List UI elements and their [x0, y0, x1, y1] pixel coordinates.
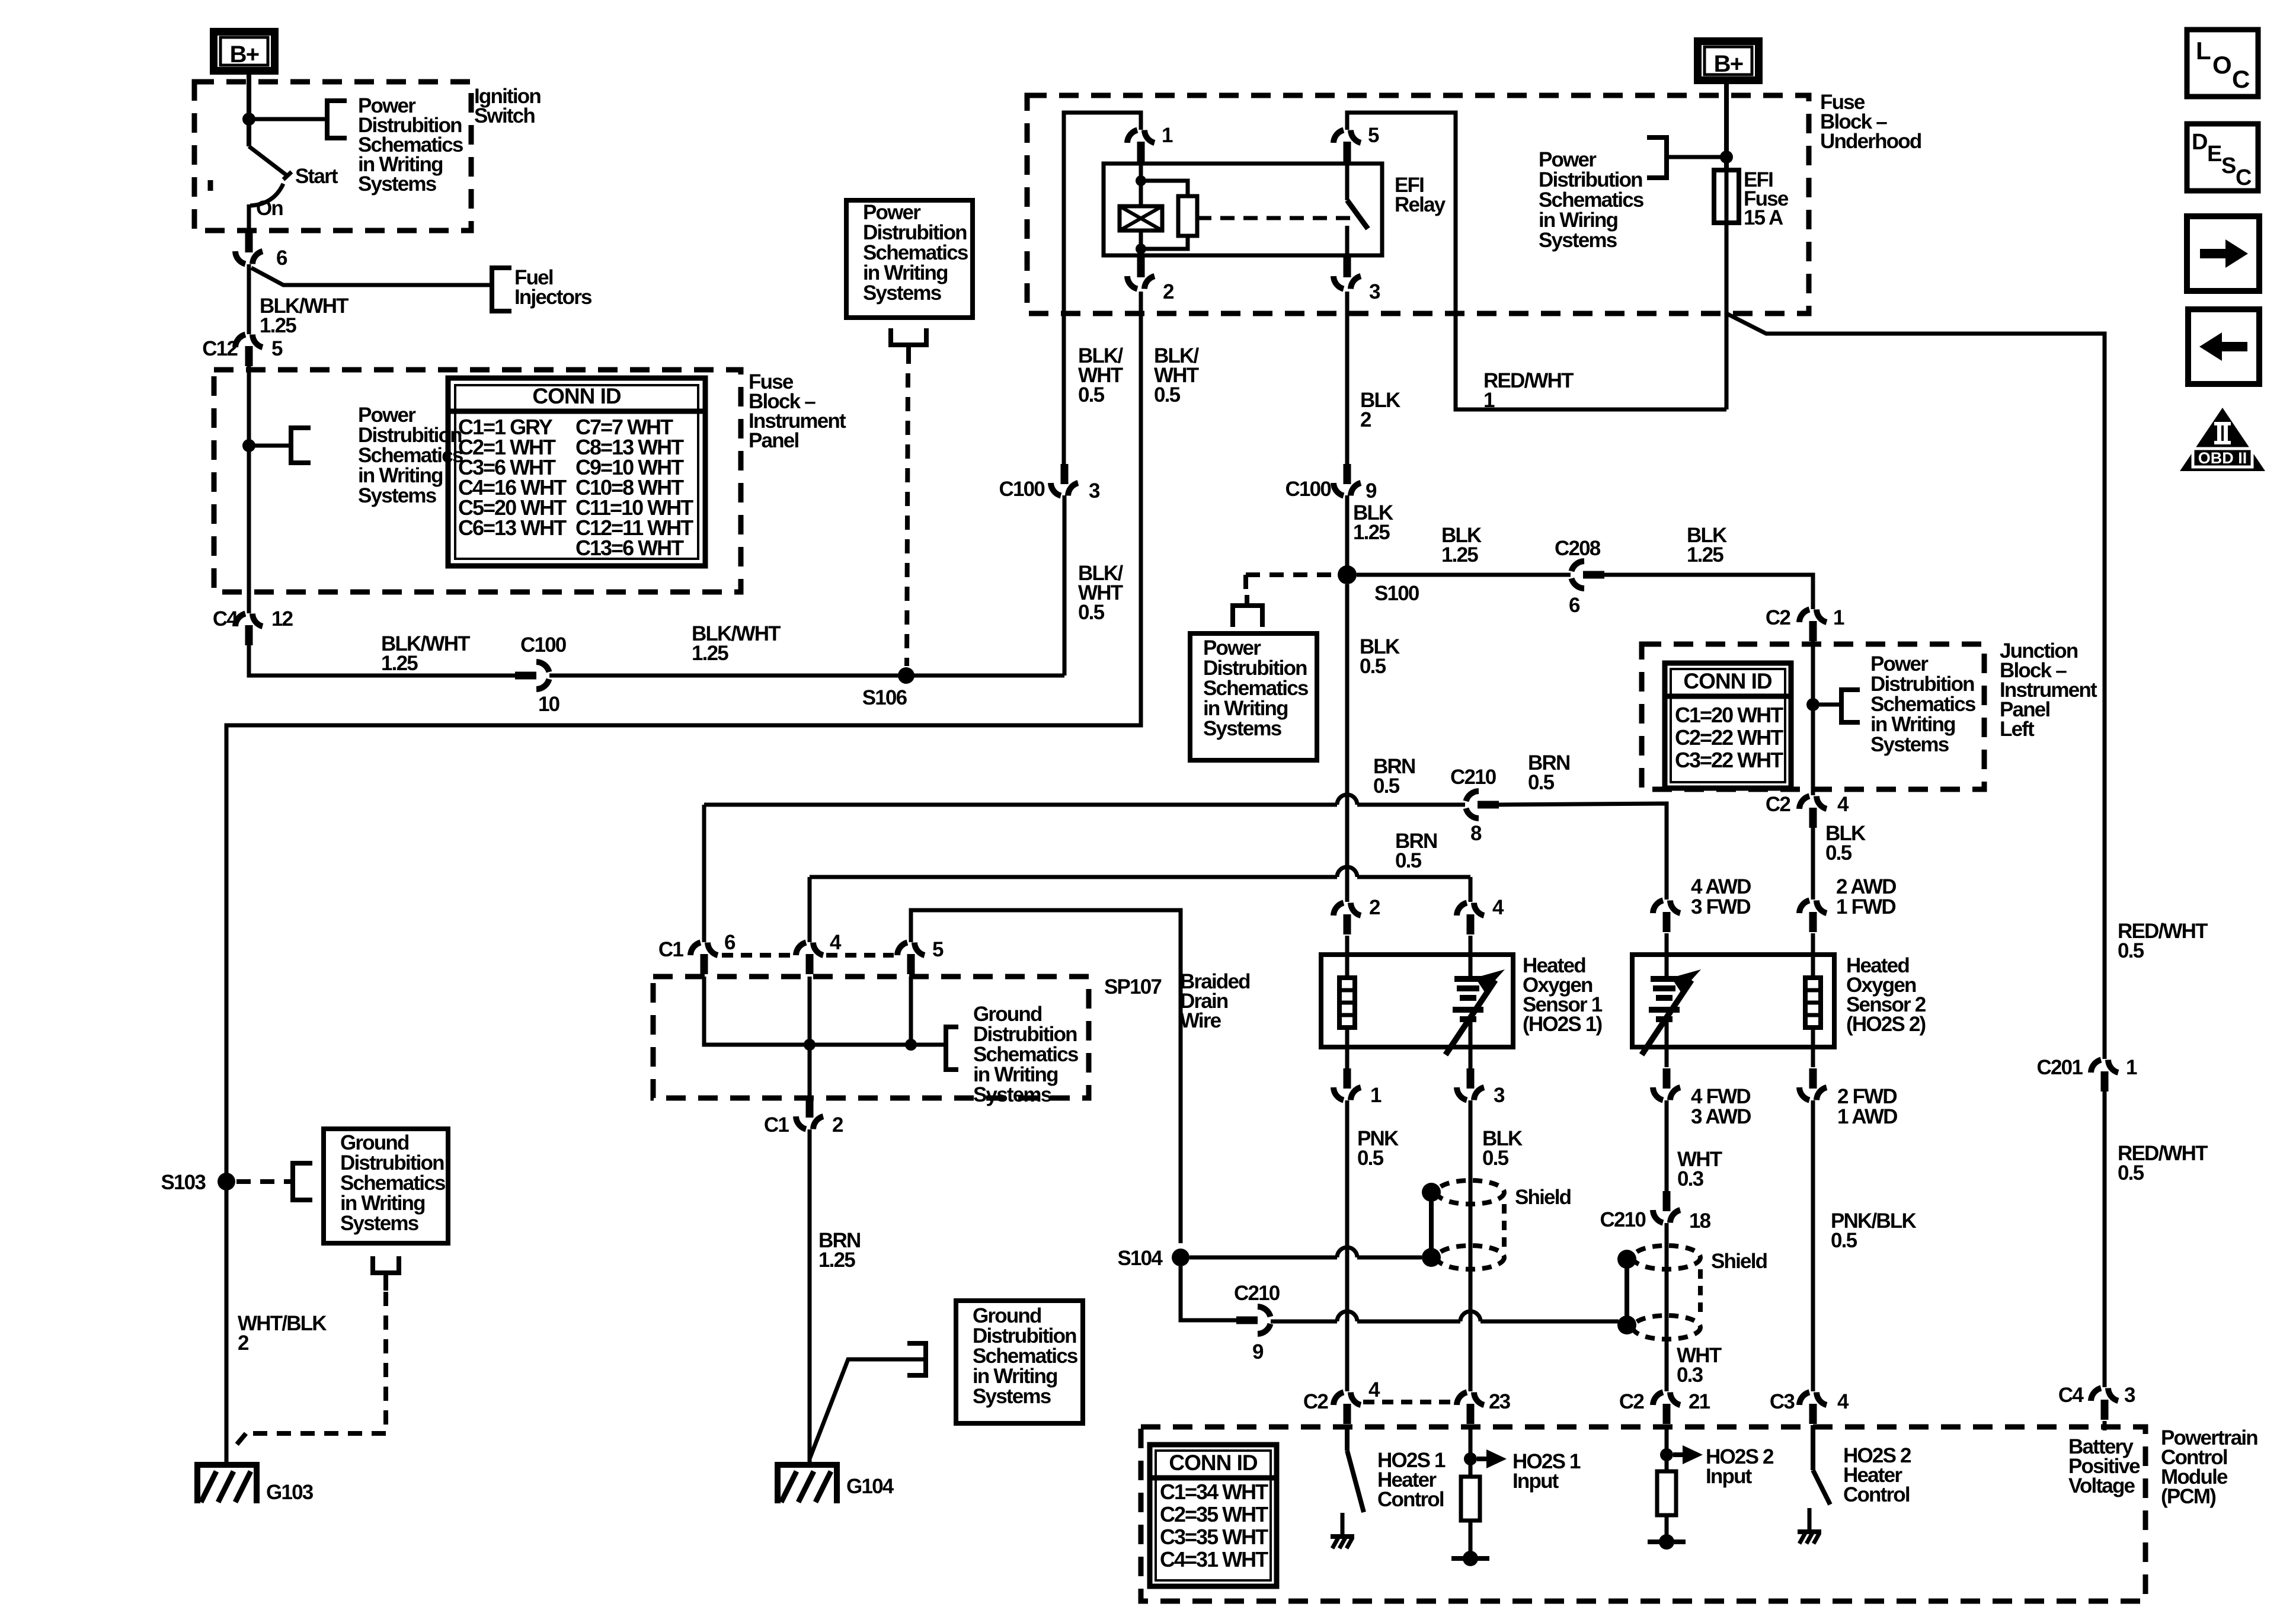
svg-text:(HO2S 1): (HO2S 1): [1523, 1013, 1602, 1036]
svg-text:1.25: 1.25: [260, 314, 296, 337]
svg-text:G103: G103: [266, 1481, 314, 1504]
svg-text:Wire: Wire: [1180, 1009, 1221, 1032]
connector HO2S1 pin 1: [1334, 1087, 1344, 1100]
svg-text:(HO2S 2): (HO2S 2): [1846, 1013, 1926, 1036]
svg-text:5: 5: [1368, 124, 1379, 147]
svg-text:18: 18: [1689, 1209, 1711, 1233]
node S100: [1338, 565, 1357, 584]
wire S104 to shield1: [1189, 1256, 1337, 1260]
svg-text:3: 3: [1494, 1084, 1505, 1107]
EFI fuse symbol: [1714, 170, 1739, 223]
connector C100 pin 3: [1051, 483, 1061, 496]
connector C2 pin 4 (PCM): [1334, 1393, 1344, 1406]
svg-text:21: 21: [1689, 1390, 1710, 1413]
wire BRN C210-8 line: [704, 803, 1337, 807]
HO2S2 heater element: [1805, 978, 1821, 1028]
relay switch: [1345, 164, 1350, 200]
svg-text:0.5: 0.5: [1078, 601, 1105, 624]
svg-text:S100: S100: [1374, 582, 1419, 605]
svg-text:Systems: Systems: [358, 484, 437, 507]
svg-text:C1: C1: [658, 938, 683, 961]
wire C1-5 to bus: [909, 977, 913, 1045]
relay coil bottom join: [1141, 236, 1188, 249]
svg-text:C208: C208: [1555, 537, 1601, 560]
svg-text:0.5: 0.5: [1528, 771, 1555, 794]
shield 1 dashed ellipses: [1437, 1180, 1504, 1204]
wire C100-10 to S106 to corner: [549, 674, 1064, 678]
resistor HO2S2 input: [1657, 1471, 1676, 1515]
ignition switch left tick: [208, 180, 213, 191]
wire C4-3 stub into PCM: [2103, 1421, 2107, 1430]
connector HO2S2 right bottom pin (2FWD/1AWD): [1799, 1087, 1809, 1100]
svg-text:2: 2: [1163, 280, 1174, 303]
svg-text:Left: Left: [2000, 718, 2035, 741]
resistor HO2S1 input: [1461, 1477, 1480, 1521]
svg-text:S106: S106: [862, 686, 907, 709]
relay coil X-box: [1120, 206, 1162, 231]
connector C100 pin 10: [515, 672, 536, 680]
HO2S2 heater control ground: [1808, 1508, 1812, 1532]
node HO2S2 input: [1660, 1448, 1673, 1461]
wire C100-9 to S100: [1345, 495, 1350, 566]
svg-text:1: 1: [1483, 389, 1495, 412]
node S106: [898, 667, 914, 684]
svg-text:3: 3: [2124, 1384, 2135, 1407]
annotation box relay-left PDS: [846, 200, 973, 318]
ground G103: [194, 1462, 260, 1468]
svg-text:1: 1: [1370, 1084, 1382, 1107]
svg-text:Systems: Systems: [973, 1083, 1052, 1106]
svg-text:3: 3: [1089, 479, 1100, 502]
wire junction to bracket (fbu): [1667, 155, 1726, 159]
SP107 dashed box: [653, 977, 1089, 1098]
svg-text:C3=35 WHT: C3=35 WHT: [1160, 1525, 1268, 1549]
wire C210-9 to shield2: [1271, 1320, 1337, 1324]
wire C4-12 corner: [249, 645, 515, 676]
connector C2 pin 4 (JB): [1799, 796, 1809, 809]
svg-text:3: 3: [1369, 280, 1380, 303]
svg-text:S104: S104: [1117, 1247, 1163, 1270]
dashed link to S106: [907, 373, 908, 666]
svg-text:2: 2: [238, 1331, 249, 1355]
wire C1-2 to G104: [808, 1129, 812, 1464]
svg-text:1: 1: [1162, 124, 1173, 147]
svg-text:4: 4: [830, 931, 842, 954]
svg-text:S103: S103: [161, 1171, 206, 1194]
svg-text:0.3: 0.3: [1677, 1363, 1703, 1387]
svg-text:2: 2: [832, 1113, 843, 1137]
svg-text:Control: Control: [1843, 1483, 1910, 1506]
svg-text:SP107: SP107: [1104, 975, 1161, 998]
svg-text:C210: C210: [1234, 1282, 1280, 1305]
connector EFI relay pin 2: [1127, 276, 1137, 289]
svg-text:C4: C4: [213, 607, 238, 630]
svg-text:C1: C1: [764, 1113, 789, 1137]
wire relay pin2 long path: [226, 292, 1141, 1173]
svg-text:Control: Control: [1377, 1488, 1444, 1511]
svg-text:C13=6 WHT: C13=6 WHT: [575, 536, 684, 560]
HO2S2 heater control switch: [1811, 1425, 1815, 1470]
svg-text:C1=34 WHT: C1=34 WHT: [1160, 1480, 1268, 1504]
svg-text:15 A: 15 A: [1744, 206, 1783, 229]
wire diag to fuel injectors: [251, 268, 492, 285]
connector C210 pin 18: [1653, 1210, 1663, 1223]
svg-text:Switch: Switch: [474, 104, 535, 127]
wire B+2 down: [1724, 84, 1729, 170]
relay armature dashed link: [1197, 216, 1352, 220]
svg-text:23: 23: [1489, 1390, 1511, 1413]
connector C210 pin 9: [1236, 1317, 1258, 1324]
svg-text:0.5: 0.5: [1360, 655, 1386, 678]
HO2S2 sensor wire: [1665, 933, 1669, 979]
wire bracket to G104: [810, 1359, 926, 1459]
bracket below S103 box: [373, 1256, 399, 1273]
wire C1-4 down through box: [808, 977, 812, 1098]
relay coil resistor: [1178, 196, 1197, 236]
svg-text:3 AWD: 3 AWD: [1691, 1105, 1751, 1128]
svg-text:9: 9: [1252, 1340, 1264, 1363]
wire C2-4 down: [1811, 828, 1815, 900]
svg-text:1 AWD: 1 AWD: [1837, 1105, 1897, 1128]
svg-text:C2: C2: [1766, 606, 1790, 629]
svg-text:WHT/BLK: WHT/BLK: [238, 1312, 327, 1335]
shield 2 dots and link: [1617, 1250, 1636, 1269]
arrow HO2S2 input: [1673, 1452, 1686, 1457]
svg-text:C1=20 WHT: C1=20 WHT: [1675, 703, 1783, 727]
svg-text:4: 4: [1368, 1378, 1380, 1401]
bracket fuel injectors: [492, 268, 511, 311]
svg-text:12: 12: [271, 607, 293, 630]
svg-text:2: 2: [1369, 896, 1380, 919]
connector HO2S1 pin 3: [1457, 1087, 1467, 1100]
connector C1 pin 2: [796, 1116, 806, 1129]
connector EFI relay pin 5: [1334, 130, 1344, 143]
wire junction to bracket: [249, 117, 327, 121]
svg-text:Systems: Systems: [358, 172, 437, 196]
bracket below S100 annotation: [1245, 595, 1249, 606]
svg-text:6: 6: [724, 931, 736, 954]
svg-text:C201: C201: [2037, 1056, 2083, 1079]
svg-text:G104: G104: [846, 1475, 894, 1498]
ignition switch Start arm: [249, 146, 287, 175]
svg-text:Voltage: Voltage: [2068, 1474, 2135, 1497]
PCM dashed box: [1141, 1427, 2145, 1601]
svg-text:(PCM): (PCM): [2161, 1485, 2215, 1508]
svg-text:CONN ID: CONN ID: [1683, 669, 1772, 693]
node JB junction: [1806, 698, 1819, 711]
svg-text:Systems: Systems: [340, 1212, 419, 1235]
wire On to pin 6: [247, 204, 251, 236]
svg-text:C4: C4: [2058, 1384, 2084, 1407]
connector C208 pin 6: [1572, 561, 1585, 571]
svg-text:Systems: Systems: [863, 281, 942, 305]
bracket annotation S103: [293, 1163, 312, 1200]
wire HO2S2 signal down: [1665, 1100, 1669, 1192]
dashed link S103 to bracket: [236, 1179, 293, 1184]
svg-text:OBD II: OBD II: [2198, 449, 2247, 467]
wire pin5 top corner: [1347, 113, 1726, 409]
connector C1 pin 6: [690, 943, 701, 956]
EFI relay box: [1104, 164, 1382, 255]
svg-text:0.5: 0.5: [1373, 774, 1400, 798]
OBD II triangle: [2180, 408, 2265, 471]
fuse block underhood dashed box: [1027, 95, 1809, 313]
svg-text:9: 9: [1366, 479, 1377, 502]
connector pin 23 (PCM): [1457, 1393, 1467, 1406]
annotation box S100 PDS: [1190, 633, 1317, 760]
svg-text:Start: Start: [295, 165, 338, 188]
svg-text:C4=31 WHT: C4=31 WHT: [1160, 1547, 1268, 1571]
svg-text:CONN ID: CONN ID: [1169, 1451, 1258, 1475]
svg-text:0.5: 0.5: [1825, 841, 1852, 865]
CONN ID table 2 frame: [1665, 663, 1791, 788]
wire C2-21 to resistor: [1665, 1425, 1669, 1471]
svg-text:5: 5: [932, 938, 944, 961]
svg-text:Relay: Relay: [1395, 193, 1446, 216]
connector HO2S1 pin 2: [1334, 903, 1344, 916]
annotation box S103 GDS: [324, 1129, 448, 1243]
CONN ID table 1 frame: [448, 378, 705, 566]
svg-text:L: L: [2196, 37, 2211, 65]
wire corner up to C100-3: [1063, 495, 1067, 676]
svg-text:1.25: 1.25: [1353, 521, 1390, 544]
svg-text:C: C: [2232, 65, 2250, 93]
svg-text:1.25: 1.25: [692, 642, 728, 665]
wire pin6 to C12-5: [247, 264, 251, 334]
arrow HO2S1 input: [1477, 1457, 1490, 1461]
LOC icon box: [2187, 30, 2258, 97]
svg-text:Shield: Shield: [1711, 1250, 1767, 1273]
connector EFI relay pin 3: [1334, 276, 1344, 289]
shield 2 dashed ellipses: [1633, 1246, 1700, 1269]
svg-text:10: 10: [538, 693, 560, 716]
node bus dot 4: [804, 1039, 816, 1051]
svg-text:0.5: 0.5: [1078, 383, 1105, 406]
svg-text:Input: Input: [1512, 1470, 1559, 1493]
junction block dashed box: [1642, 644, 1984, 789]
dashed link C2-4 to 23: [1363, 1400, 1453, 1404]
svg-text:1: 1: [1833, 606, 1844, 629]
bracket annotation G104: [907, 1343, 926, 1375]
svg-text:Systems: Systems: [973, 1385, 1051, 1408]
svg-text:S: S: [2221, 153, 2236, 178]
svg-text:2: 2: [1360, 408, 1371, 431]
connector HO2S2 left bottom pin (4FWD/3AWD): [1653, 1087, 1663, 1100]
svg-text:4: 4: [1492, 896, 1504, 919]
svg-text:C210: C210: [1600, 1208, 1646, 1231]
node fuse top junction: [1720, 151, 1733, 164]
wire S100 right to C208: [1357, 573, 1571, 577]
wire HO2S2 heater down: [1811, 1100, 1815, 1391]
wire B+1 to ignition switch: [247, 75, 251, 146]
svg-text:B+: B+: [1714, 51, 1743, 77]
ground G104: [775, 1462, 840, 1468]
HO2S2 box: [1632, 955, 1834, 1047]
wire C210-8 to HO2S2: [1498, 804, 1667, 900]
svg-text:Injectors: Injectors: [514, 286, 592, 309]
svg-text:1.25: 1.25: [1441, 543, 1478, 566]
wire inside fb-ip down: [247, 446, 251, 613]
connector EFI relay pin 1: [1127, 130, 1137, 143]
bracket annotation fb-ip: [291, 428, 311, 463]
svg-text:0.5: 0.5: [1395, 849, 1422, 872]
node S104: [1172, 1249, 1189, 1266]
svg-text:Panel: Panel: [749, 429, 798, 452]
wire C1-6 to bus: [704, 977, 946, 1045]
right arrow icon box: [2187, 216, 2259, 291]
svg-text:0.5: 0.5: [1482, 1147, 1509, 1170]
svg-text:1.25: 1.25: [381, 652, 418, 675]
HO2S2 input ground: [1665, 1515, 1669, 1542]
svg-text:C12: C12: [202, 337, 238, 360]
dashed annotation to G103: [383, 1292, 388, 1433]
svg-text:C100: C100: [1285, 478, 1332, 501]
svg-text:0.5: 0.5: [2118, 1161, 2144, 1185]
svg-text:C6=13 WHT: C6=13 WHT: [458, 516, 567, 540]
svg-text:C2: C2: [1619, 1390, 1644, 1413]
svg-text:C2=35 WHT: C2=35 WHT: [1160, 1502, 1268, 1526]
bracket annotation ignition: [327, 101, 347, 138]
svg-text:E: E: [2207, 142, 2221, 167]
HO2S1 input ground: [1469, 1521, 1473, 1558]
wire C201 to C4-3: [2103, 1092, 2107, 1387]
wire C208 to C2-1: [1604, 575, 1813, 609]
svg-text:6: 6: [276, 247, 287, 270]
HO2S1 heater wire: [1345, 936, 1350, 978]
relay coil branch: [1139, 162, 1143, 206]
connector HO2S2 left pin (4AWD/3FWD): [1653, 901, 1663, 914]
svg-text:D: D: [2192, 130, 2207, 155]
HO2S1 heater control ground: [1341, 1513, 1345, 1537]
svg-text:0.3: 0.3: [1677, 1167, 1704, 1190]
svg-text:1: 1: [2126, 1056, 2137, 1079]
wire junction to bracket (fb-ip): [249, 444, 291, 448]
svg-text:0.5: 0.5: [1831, 1229, 1857, 1252]
DESC icon box: [2187, 124, 2258, 191]
svg-text:Systems: Systems: [1203, 717, 1282, 740]
svg-text:Systems: Systems: [1870, 733, 1949, 756]
connector HO2S2 right pin (2AWD/1FWD): [1799, 901, 1809, 914]
battery B+ terminal 2 (box): [1698, 41, 1759, 81]
fuse block IP dashed box: [214, 370, 741, 592]
svg-text:4: 4: [1837, 793, 1849, 816]
connector C3 pin 4 (PCM): [1799, 1393, 1809, 1406]
connector C2 pin 21 (PCM): [1653, 1393, 1663, 1406]
svg-text:C100: C100: [999, 478, 1045, 501]
wire C12-5 into fuse block: [247, 366, 251, 446]
svg-text:O: O: [2212, 51, 2231, 79]
wire HO2S1 pin3 down BLK: [1469, 1100, 1473, 1391]
wire BRN to HO2S1 pin 4: [810, 875, 1337, 879]
connector C4 pin 3 (PCM): [2091, 1388, 2101, 1401]
CONN ID table 3 frame: [1150, 1445, 1277, 1586]
bracket annotation JB: [1841, 690, 1860, 722]
wire corner to C1-6: [702, 805, 706, 942]
bracket SP107 annotation: [946, 1027, 958, 1070]
connector C210 pin 8: [1466, 791, 1479, 801]
wire S103 to G103: [225, 1190, 229, 1464]
svg-text:1.25: 1.25: [1687, 543, 1723, 566]
svg-text:3 FWD: 3 FWD: [1691, 895, 1750, 918]
wire S104 down to corner: [1181, 1266, 1236, 1320]
svg-text:CONN ID: CONN ID: [532, 384, 621, 408]
svg-text:C2: C2: [1303, 1390, 1328, 1413]
connector ignition pin 6 (cup): [235, 251, 245, 264]
connector C1 pin 4: [796, 943, 806, 956]
HO2S1 sensor wire: [1469, 936, 1473, 979]
HO2S2 sensor symbol: [1651, 976, 1678, 982]
annotation box G104 GDS: [956, 1301, 1083, 1423]
wire JB junction to bracket: [1813, 703, 1841, 707]
svg-text:C2: C2: [1766, 793, 1790, 816]
node fuse block IP junction: [242, 439, 255, 452]
wire corner to C1-4: [808, 877, 812, 942]
node S103: [218, 1173, 235, 1190]
svg-text:RED/WHT: RED/WHT: [1483, 369, 1574, 392]
svg-text:C100: C100: [520, 633, 567, 657]
svg-text:Underhood: Underhood: [1820, 130, 1921, 153]
svg-text:Systems: Systems: [1539, 229, 1617, 252]
svg-text:C: C: [2236, 165, 2252, 190]
svg-text:C2=22 WHT: C2=22 WHT: [1675, 725, 1783, 750]
svg-text:8: 8: [1470, 822, 1482, 845]
wire S100 BLK 0.5 down: [1345, 584, 1350, 902]
svg-text:C3=22 WHT: C3=22 WHT: [1675, 748, 1783, 772]
dashed C1 pin row: [722, 953, 792, 958]
svg-text:6: 6: [1569, 594, 1580, 617]
HO2S1 heater control switch: [1345, 1425, 1350, 1451]
node bus dot 5: [905, 1039, 917, 1051]
node ignition feed junction: [242, 113, 255, 126]
svg-text:C3: C3: [1770, 1390, 1795, 1413]
HO2S1 sensor symbol: [1454, 976, 1482, 982]
bracket annotation fbu: [1647, 137, 1667, 178]
connector C12 pin 5: [235, 335, 245, 348]
wire pin23 to resistor: [1469, 1425, 1473, 1477]
dashed link S100 to bracket: [1246, 572, 1338, 577]
svg-text:C210: C210: [1450, 766, 1496, 789]
HO2S2 heater wire: [1811, 933, 1815, 978]
HO2S1 heater element: [1339, 978, 1355, 1028]
connector C2 pin 1 (JB): [1799, 610, 1809, 623]
svg-text:0.5: 0.5: [1357, 1147, 1384, 1170]
connector C1 pin 5: [897, 943, 907, 956]
svg-text:On: On: [256, 197, 283, 220]
svg-text:Input: Input: [1706, 1465, 1753, 1488]
wire fuse to corner paths: [1725, 223, 1729, 409]
shield 1 dots and link: [1422, 1183, 1441, 1202]
wire braided drain top: [911, 910, 1181, 1243]
connector C201 pin 1: [2091, 1060, 2101, 1073]
svg-text:B+: B+: [230, 41, 259, 68]
svg-text:Shield: Shield: [1515, 1186, 1571, 1209]
bracket below relay-left box: [891, 328, 926, 345]
ignition switch dashed box: [194, 82, 471, 231]
wire pin1 top corner: [1064, 113, 1141, 465]
node HO2S1 input: [1464, 1452, 1477, 1465]
battery B+ terminal 1 (box): [214, 32, 275, 71]
wire C210-18 down to C2-21: [1665, 1223, 1669, 1391]
HO2S1 box: [1321, 955, 1513, 1047]
wire pin3 down to C100-9: [1345, 292, 1350, 464]
svg-text:0.5: 0.5: [1154, 383, 1181, 406]
connector C4 pin 12: [235, 614, 245, 627]
svg-text:1.25: 1.25: [818, 1249, 855, 1272]
wire HO2S1 pin1 down PNK: [1345, 1100, 1350, 1391]
svg-text:4: 4: [1837, 1390, 1849, 1413]
connector HO2S1 pin 4: [1457, 903, 1467, 916]
svg-text:0.5: 0.5: [2118, 939, 2144, 962]
